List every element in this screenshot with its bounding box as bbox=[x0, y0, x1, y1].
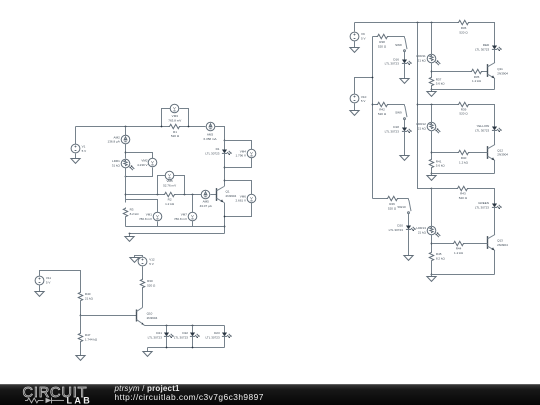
wire base3 to R44 bbox=[432, 243, 453, 245]
wire R37 to rail1 bbox=[431, 87, 433, 90]
node dot R1 left bbox=[161, 126, 163, 128]
svg-text:2N3904: 2N3904 bbox=[226, 194, 237, 198]
wire V9 to ground bbox=[354, 41, 356, 48]
wire VM7 bottom bbox=[192, 221, 194, 227]
wire D21 top bbox=[166, 326, 168, 333]
wire rail1 bbox=[432, 89, 495, 91]
resistor R2 bbox=[164, 192, 176, 196]
wire R35 to Q11 base bbox=[483, 71, 488, 73]
ground under R47 bbox=[76, 356, 85, 361]
FOOTER bbox=[0, 384, 540, 405]
wire R47 to ground bbox=[80, 343, 82, 356]
svg-text:43.07 μA: 43.07 μA bbox=[200, 204, 213, 208]
wire LDR1 down bus bbox=[125, 168, 127, 203]
wire to AM2 bbox=[125, 127, 127, 136]
voltmeter VM6 loop wires bbox=[225, 181, 252, 217]
voltage source V10 bbox=[350, 94, 359, 103]
svg-text:D22: D22 bbox=[182, 331, 188, 335]
svg-text:21 kΩ: 21 kΩ bbox=[85, 296, 94, 300]
node dot LDR11 top bbox=[431, 22, 433, 24]
wire AM2 to LDR1 bbox=[125, 144, 127, 159]
wire Q11 emitter bbox=[494, 79, 496, 90]
svg-text:D18: D18 bbox=[393, 125, 399, 129]
svg-text:2N3904: 2N3904 bbox=[497, 153, 508, 157]
node dot divider bbox=[80, 315, 82, 317]
svg-text:R1: R1 bbox=[173, 130, 177, 134]
svg-text:Q13: Q13 bbox=[497, 239, 503, 243]
wire GREEN to Q13 bbox=[494, 208, 496, 235]
svg-text:R42: R42 bbox=[379, 107, 385, 111]
wire R45 to rail3 bbox=[431, 261, 433, 275]
svg-text:R38: R38 bbox=[379, 40, 385, 44]
svg-text:SW9: SW9 bbox=[395, 111, 402, 115]
resistor R47 bbox=[80, 316, 82, 333]
wire AM5 to base bbox=[211, 194, 217, 196]
switch SW10 bbox=[408, 199, 411, 214]
wire bottom rail bbox=[148, 347, 225, 349]
photoresistor LDR1 bbox=[121, 159, 134, 170]
CIRCUIT C : right side bbox=[350, 20, 508, 281]
wire R2 to AM5 bbox=[176, 194, 202, 196]
wire V1 to ground bbox=[75, 154, 77, 159]
resistor R3 bbox=[123, 208, 127, 218]
svg-text:1.796 V: 1.796 V bbox=[235, 154, 246, 158]
node dot VM5 right tap bbox=[184, 194, 186, 196]
svg-text:LDR1: LDR1 bbox=[112, 159, 120, 163]
wire R36 to RED led bbox=[470, 23, 495, 46]
wire VM7 top bbox=[192, 195, 194, 213]
voltmeter VM3 bbox=[170, 104, 179, 113]
wire VM1 bottom bbox=[157, 222, 159, 227]
svg-text:Q1: Q1 bbox=[226, 189, 230, 193]
resistor R39 bbox=[458, 102, 470, 106]
LED D18 bbox=[402, 128, 412, 134]
svg-text:LTL 30723: LTL 30723 bbox=[475, 48, 490, 52]
wire rail2 bbox=[432, 173, 495, 175]
wire emitter rail top bbox=[145, 325, 225, 327]
resistor R35 bbox=[471, 69, 483, 73]
svg-text:R40: R40 bbox=[85, 292, 91, 296]
transistor Q13 bbox=[488, 235, 496, 251]
wire ground rail bbox=[130, 233, 225, 235]
svg-text:2N3904: 2N3904 bbox=[497, 243, 508, 247]
svg-text:D1: D1 bbox=[216, 147, 220, 151]
svg-text:520 Ω: 520 Ω bbox=[171, 134, 180, 138]
svg-text:LAB: LAB bbox=[67, 395, 93, 405]
wire R40 to node bbox=[80, 301, 82, 316]
wire top rail V1 to R1 bbox=[76, 126, 169, 128]
wire LDR12 top bbox=[431, 105, 433, 123]
wire SW8 to D16 bbox=[404, 52, 406, 60]
ground block2 bbox=[431, 174, 433, 176]
wire LDR11 top bbox=[431, 23, 433, 55]
wire rail3 bbox=[432, 274, 495, 276]
svg-text:8.2 kΩ: 8.2 kΩ bbox=[436, 256, 446, 260]
voltmeter VM4 bbox=[247, 149, 256, 158]
wire LDR13 bottom bbox=[431, 235, 433, 252]
voltmeter VM7 bbox=[188, 212, 197, 221]
svg-text:763.8 mV: 763.8 mV bbox=[168, 119, 182, 123]
svg-text:V10: V10 bbox=[361, 95, 367, 99]
svg-text:LTL 30723: LTL 30723 bbox=[475, 206, 490, 210]
wire R39 to YELLOW bbox=[470, 105, 495, 127]
svg-text:LTL 30723: LTL 30723 bbox=[205, 152, 220, 156]
ground block3 bbox=[431, 275, 433, 277]
svg-text:R45: R45 bbox=[436, 252, 442, 256]
svg-text:21 kΩ: 21 kΩ bbox=[418, 59, 427, 63]
svg-text:2N3904: 2N3904 bbox=[497, 72, 508, 76]
node dot V10 join bbox=[372, 77, 374, 79]
node dot bus top bbox=[417, 22, 419, 24]
wire tap to VM2 top bbox=[126, 153, 153, 159]
svg-text:D23: D23 bbox=[214, 331, 220, 335]
svg-text:31 kΩ: 31 kΩ bbox=[112, 163, 121, 167]
wire AM3 to collector corner bbox=[215, 127, 225, 141]
node dot LDR top tap bbox=[125, 152, 127, 154]
ground under V1 bbox=[71, 159, 80, 164]
svg-text:V9: V9 bbox=[361, 32, 365, 36]
wire feed3 bbox=[432, 188, 457, 190]
voltmeter VM1 bbox=[153, 212, 162, 221]
svg-text:LTL 30723: LTL 30723 bbox=[475, 128, 490, 132]
svg-text:http://circuitlab.com/c3v7g6c3: http://circuitlab.com/c3v7g6c3h9897 bbox=[115, 392, 264, 402]
wire to R42 bbox=[373, 104, 377, 106]
wire base1 to R35 bbox=[432, 71, 471, 73]
wire base rail to R2 bbox=[126, 194, 164, 196]
voltage source V11 bbox=[35, 276, 44, 285]
wire V12 to R30 bbox=[142, 267, 144, 279]
svg-text:SW8: SW8 bbox=[395, 43, 402, 47]
LED D16 bbox=[402, 60, 412, 66]
wire D16 to ground bbox=[404, 64, 406, 79]
svg-text:LTL 30723: LTL 30723 bbox=[205, 335, 220, 339]
ground under V10 bbox=[350, 111, 359, 116]
wire R46 to SW10 bbox=[399, 198, 409, 200]
wire LDR11 bottom bbox=[431, 63, 433, 77]
wire Q13 emitter bbox=[494, 251, 496, 275]
ground under D20 bbox=[404, 256, 413, 261]
node dot R1 right bbox=[188, 126, 190, 128]
svg-text:YELLOW: YELLOW bbox=[476, 124, 489, 128]
svg-text:1.2 kΩ: 1.2 kΩ bbox=[472, 79, 482, 83]
svg-text:8.2 kΩ: 8.2 kΩ bbox=[130, 212, 140, 216]
svg-text:V12: V12 bbox=[149, 258, 155, 262]
wire base2 to R40b bbox=[432, 152, 458, 154]
svg-text:520 Ω: 520 Ω bbox=[378, 112, 387, 116]
svg-text:LDR11: LDR11 bbox=[416, 54, 426, 58]
LED RED bbox=[492, 46, 502, 52]
wire R42 to SW9 bbox=[389, 104, 405, 106]
ground circuit B bbox=[143, 352, 152, 357]
wire LDR13 top bbox=[431, 189, 433, 227]
wire D22 top bbox=[192, 326, 194, 333]
node dot VM4 bottom tap bbox=[224, 167, 226, 169]
resistor R36 bbox=[458, 20, 470, 24]
svg-text:5.6 kΩ: 5.6 kΩ bbox=[436, 82, 446, 86]
wire Q1 emitter down bbox=[224, 203, 226, 234]
ground circuit A bbox=[125, 237, 134, 242]
svg-text:52.76 mV: 52.76 mV bbox=[163, 184, 177, 188]
svg-text:LTL 30723: LTL 30723 bbox=[385, 129, 400, 133]
ground block1 bbox=[431, 90, 433, 92]
svg-text:21 kΩ: 21 kΩ bbox=[418, 231, 427, 235]
node dot LDR12 top bbox=[431, 104, 433, 106]
wire YELLOW to Q12 bbox=[494, 131, 496, 145]
wire Q12 emitter bbox=[494, 161, 496, 174]
node dot rail2 bbox=[431, 173, 433, 175]
svg-text:520 Ω: 520 Ω bbox=[459, 196, 468, 200]
node dot ground stub bbox=[129, 233, 131, 235]
node dot emitter rail bbox=[224, 226, 226, 228]
resistor R41 bbox=[429, 159, 433, 169]
LED YELLOW bbox=[492, 127, 502, 133]
node dot VM7 tap bbox=[192, 194, 194, 196]
resistor R38 bbox=[377, 34, 389, 38]
wire V9 stub bbox=[354, 23, 356, 32]
svg-text:780.8 mV: 780.8 mV bbox=[139, 217, 153, 221]
svg-text:R3: R3 bbox=[130, 207, 134, 211]
ammeter AM5 bbox=[201, 190, 210, 199]
svg-text:4.239 V: 4.239 V bbox=[137, 163, 148, 167]
voltmeter VM3 loop wires bbox=[162, 109, 189, 127]
switch SW8 bbox=[404, 37, 407, 52]
svg-text:VM6: VM6 bbox=[240, 194, 247, 198]
wire V1 stub bbox=[75, 127, 77, 145]
voltmeter VM5 bbox=[165, 171, 174, 180]
svg-text:AM2: AM2 bbox=[114, 135, 121, 139]
wire V12 top loop bbox=[135, 256, 143, 258]
svg-text:R37: R37 bbox=[436, 77, 442, 81]
wire R30 to Q10 collector bbox=[142, 289, 144, 308]
svg-text:LTL 30723: LTL 30723 bbox=[148, 335, 163, 339]
svg-text:520 Ω: 520 Ω bbox=[147, 284, 156, 288]
wire R41 to rail2 bbox=[431, 169, 433, 174]
svg-text:LTL 30723: LTL 30723 bbox=[385, 62, 400, 66]
wire feed2 bbox=[418, 104, 458, 106]
svg-text:2N3904: 2N3904 bbox=[147, 316, 158, 320]
node dot top rail AM2 branch bbox=[125, 126, 127, 128]
svg-text:GREEN: GREEN bbox=[478, 201, 489, 205]
LED GREEN bbox=[492, 204, 502, 210]
voltmeter VM2 bbox=[148, 158, 157, 167]
voltage source V12 bbox=[138, 257, 147, 266]
wire ground stub bbox=[129, 234, 131, 237]
svg-text:520 Ω: 520 Ω bbox=[388, 206, 397, 210]
svg-text:520 Ω: 520 Ω bbox=[459, 112, 468, 116]
LED D23 bbox=[222, 333, 232, 339]
voltmeter VM5 loop wires bbox=[158, 176, 185, 195]
svg-text:SW10: SW10 bbox=[397, 205, 406, 209]
node dot emitter VM6 bbox=[224, 216, 226, 218]
svg-text:R46: R46 bbox=[389, 202, 395, 206]
wire top rail bbox=[355, 22, 458, 24]
photoresistor LDR12 bbox=[427, 122, 440, 133]
resistor R43 bbox=[457, 186, 469, 190]
wire switch bus vertical bbox=[372, 37, 374, 199]
svg-text:R35: R35 bbox=[474, 75, 480, 79]
voltage source V1 bbox=[71, 144, 80, 153]
svg-text:2.661 V: 2.661 V bbox=[235, 199, 246, 203]
svg-text:520 Ω: 520 Ω bbox=[459, 31, 468, 35]
CIRCUIT A : top-left bbox=[71, 104, 256, 241]
resistor R45 bbox=[429, 252, 433, 262]
svg-text:R41: R41 bbox=[436, 159, 442, 163]
node dot LDR bottom tap bbox=[125, 176, 127, 178]
node dot rail3 bbox=[431, 274, 433, 276]
ground under D18 bbox=[400, 156, 409, 161]
svg-text:6.358 mA: 6.358 mA bbox=[203, 137, 217, 141]
resistor R40 block2 bbox=[458, 150, 470, 154]
ground under V9 bbox=[350, 48, 359, 53]
wire RED to Q11 bbox=[494, 50, 496, 63]
wire VM2 bottom to tap bbox=[126, 168, 153, 177]
wire D21 bottom bbox=[166, 337, 168, 348]
svg-text:R36: R36 bbox=[461, 26, 467, 30]
wire D18 to ground bbox=[404, 131, 406, 156]
wire VM1 tap bbox=[126, 200, 158, 213]
svg-text:R30: R30 bbox=[147, 279, 153, 283]
resistor R1 bbox=[169, 124, 181, 128]
svg-text:VM5: VM5 bbox=[166, 179, 173, 183]
node dot VM4 top tap bbox=[224, 140, 226, 142]
resistor R37 bbox=[429, 77, 433, 87]
svg-text:R40: R40 bbox=[461, 156, 467, 160]
node dot bottom D22 bbox=[192, 347, 194, 349]
wire to R46 bbox=[373, 198, 387, 200]
wire V11 top to R40 bbox=[40, 271, 81, 292]
voltage source V9 bbox=[350, 32, 359, 41]
ground V12 bbox=[130, 258, 139, 263]
svg-text:Q12: Q12 bbox=[497, 148, 503, 152]
svg-text:1.744 kΩ: 1.744 kΩ bbox=[85, 338, 98, 342]
svg-text:21 kΩ: 21 kΩ bbox=[418, 127, 427, 131]
svg-text:V11: V11 bbox=[46, 276, 52, 280]
wire V10 to ground bbox=[354, 104, 356, 111]
node dot bottom D21 bbox=[166, 347, 168, 349]
wire V10 top to bus bbox=[355, 78, 373, 95]
svg-text:RED: RED bbox=[483, 43, 490, 47]
wire D20 to ground bbox=[408, 230, 410, 256]
node dot base tee bbox=[125, 194, 127, 196]
wire R38 to SW8 bbox=[389, 36, 405, 38]
ammeter AM3 bbox=[206, 122, 215, 131]
svg-text:V1: V1 bbox=[82, 145, 86, 149]
wire base to Q10 bbox=[81, 315, 137, 317]
svg-text:520 Ω: 520 Ω bbox=[378, 44, 387, 48]
node dot LDR13 top bbox=[431, 188, 433, 190]
resistor R42 bbox=[377, 102, 389, 106]
resistor R40 bbox=[78, 292, 82, 302]
node dot base2 bbox=[431, 152, 433, 154]
wire to D1 bbox=[224, 141, 226, 150]
wire SW10 to D20 bbox=[408, 214, 410, 226]
svg-text:1.2 kΩ: 1.2 kΩ bbox=[454, 251, 464, 255]
svg-text:780.8 mV: 780.8 mV bbox=[174, 217, 188, 221]
LED D22 bbox=[190, 333, 200, 339]
svg-text:R43: R43 bbox=[460, 192, 466, 196]
photoresistor LDR11 bbox=[427, 54, 440, 65]
wire V11 to ground bbox=[39, 285, 41, 292]
node dot base3 bbox=[431, 243, 433, 245]
wire D22 bottom bbox=[192, 337, 194, 348]
node dot VM5 left tap bbox=[157, 194, 159, 196]
wire D23 top bbox=[224, 326, 226, 333]
resistor R44 bbox=[453, 241, 465, 245]
LED D20 bbox=[406, 226, 416, 232]
wire R44 to Q13 base bbox=[465, 243, 488, 245]
wire D1 to VM6 tap bbox=[224, 154, 226, 187]
svg-text:D16: D16 bbox=[393, 57, 399, 61]
wire R3 bottom to rail bbox=[125, 217, 127, 227]
svg-text:LDR13: LDR13 bbox=[416, 226, 426, 230]
svg-text:1.2 kΩ: 1.2 kΩ bbox=[165, 202, 175, 206]
svg-text:1.2 kΩ: 1.2 kΩ bbox=[459, 160, 469, 164]
transistor Q10 bbox=[136, 310, 138, 322]
wire to R38 bbox=[373, 36, 377, 38]
wire meters bottom rail bbox=[126, 226, 225, 228]
svg-text:136.8 μA: 136.8 μA bbox=[108, 140, 121, 144]
transistor Q11 bbox=[488, 63, 496, 79]
node dot rail1 bbox=[431, 89, 433, 91]
svg-text:VM4: VM4 bbox=[240, 149, 247, 153]
svg-text:VM2: VM2 bbox=[141, 159, 148, 163]
ground under V11 bbox=[35, 292, 44, 297]
svg-text:VM7: VM7 bbox=[181, 212, 188, 216]
wire SW9 to D18 bbox=[404, 120, 406, 128]
svg-text:D21: D21 bbox=[156, 331, 162, 335]
svg-text:D20: D20 bbox=[397, 224, 403, 228]
svg-text:LTL 30723: LTL 30723 bbox=[389, 228, 404, 232]
transistor Q12 bbox=[488, 145, 496, 161]
svg-text:R39: R39 bbox=[461, 107, 467, 111]
svg-text:LTL 30723: LTL 30723 bbox=[174, 335, 189, 339]
wire LDR12 bottom bbox=[431, 131, 433, 159]
wire ground stub bbox=[147, 348, 149, 352]
wire feed bus vertical bbox=[418, 23, 432, 189]
switch SW9 bbox=[404, 105, 407, 120]
resistor R30 bbox=[140, 279, 144, 289]
voltmeter VM6 bbox=[247, 194, 256, 203]
svg-text:AM3: AM3 bbox=[207, 132, 214, 136]
node dot bus block2 bbox=[417, 104, 419, 106]
transistor Q1 bbox=[217, 187, 225, 203]
wire R1 to AM3 bbox=[181, 126, 206, 128]
svg-text:Q10: Q10 bbox=[147, 311, 153, 315]
svg-text:R44: R44 bbox=[456, 246, 462, 250]
svg-text:R47: R47 bbox=[85, 333, 91, 337]
svg-text:VM3: VM3 bbox=[172, 114, 179, 118]
ground under D16 bbox=[400, 79, 409, 84]
node dot base1 bbox=[431, 71, 433, 73]
photoresistor LDR13 bbox=[427, 226, 440, 237]
svg-text:VM1: VM1 bbox=[146, 213, 153, 217]
svg-text:5.6 kΩ: 5.6 kΩ bbox=[436, 164, 446, 168]
resistor R46 bbox=[387, 196, 399, 200]
voltmeter VM4 loop wires bbox=[225, 141, 252, 168]
svg-text:AM5: AM5 bbox=[203, 200, 210, 204]
svg-text:R2: R2 bbox=[168, 198, 172, 202]
wire R43 to GREEN bbox=[469, 189, 495, 204]
svg-text:LDR12: LDR12 bbox=[416, 122, 426, 126]
CIRCUIT B : bottom-left bbox=[35, 256, 232, 361]
ammeter AM2 bbox=[121, 135, 130, 144]
node dot R42 join bbox=[372, 104, 374, 106]
wire R40 to Q12 base bbox=[470, 152, 488, 154]
node dot rail D21 bbox=[166, 325, 168, 327]
wire D23 bottom bbox=[224, 337, 226, 348]
node dot VM6 top tap bbox=[224, 180, 226, 182]
node dot rail D22 bbox=[192, 325, 194, 327]
